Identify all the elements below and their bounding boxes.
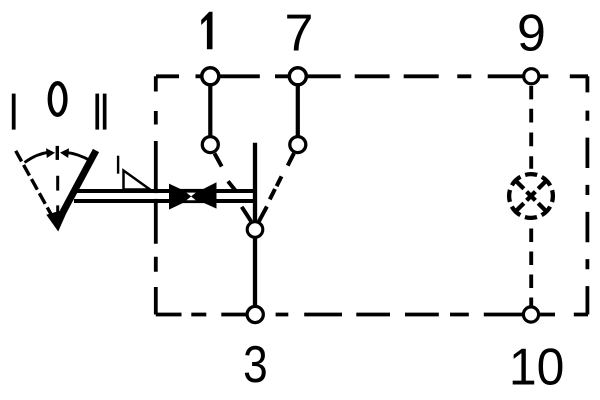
svg-text:10: 10 <box>509 337 565 395</box>
svg-text:7: 7 <box>285 5 314 63</box>
svg-text:3: 3 <box>243 336 268 394</box>
svg-text:9: 9 <box>517 5 546 63</box>
